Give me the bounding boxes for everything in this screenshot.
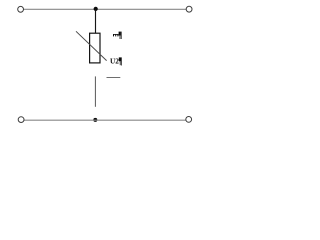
varistor U2 diagonal stroke (76, 31, 107, 60)
wire top horizontal (23, 8, 186, 10)
disconnector contact bar (107, 77, 121, 79)
terminal bottom-right (186, 117, 192, 123)
terminal bottom-left (18, 117, 24, 123)
pilcrow after value label (119, 32, 122, 39)
junction top node (94, 7, 98, 11)
wire vertical lower (open gap to bottom bus) (94, 76, 96, 106)
wire bottom horizontal (24, 119, 186, 121)
junction bottom node (93, 118, 97, 122)
varistor U2 body (90, 33, 100, 63)
wire vertical from top node to varistor (95, 9, 97, 34)
terminal top-left (18, 6, 24, 12)
svg-text:U2: U2 (110, 57, 119, 66)
terminal top-right (186, 6, 192, 12)
value label m (113, 34, 118, 36)
pilcrow after reference label (119, 57, 122, 65)
